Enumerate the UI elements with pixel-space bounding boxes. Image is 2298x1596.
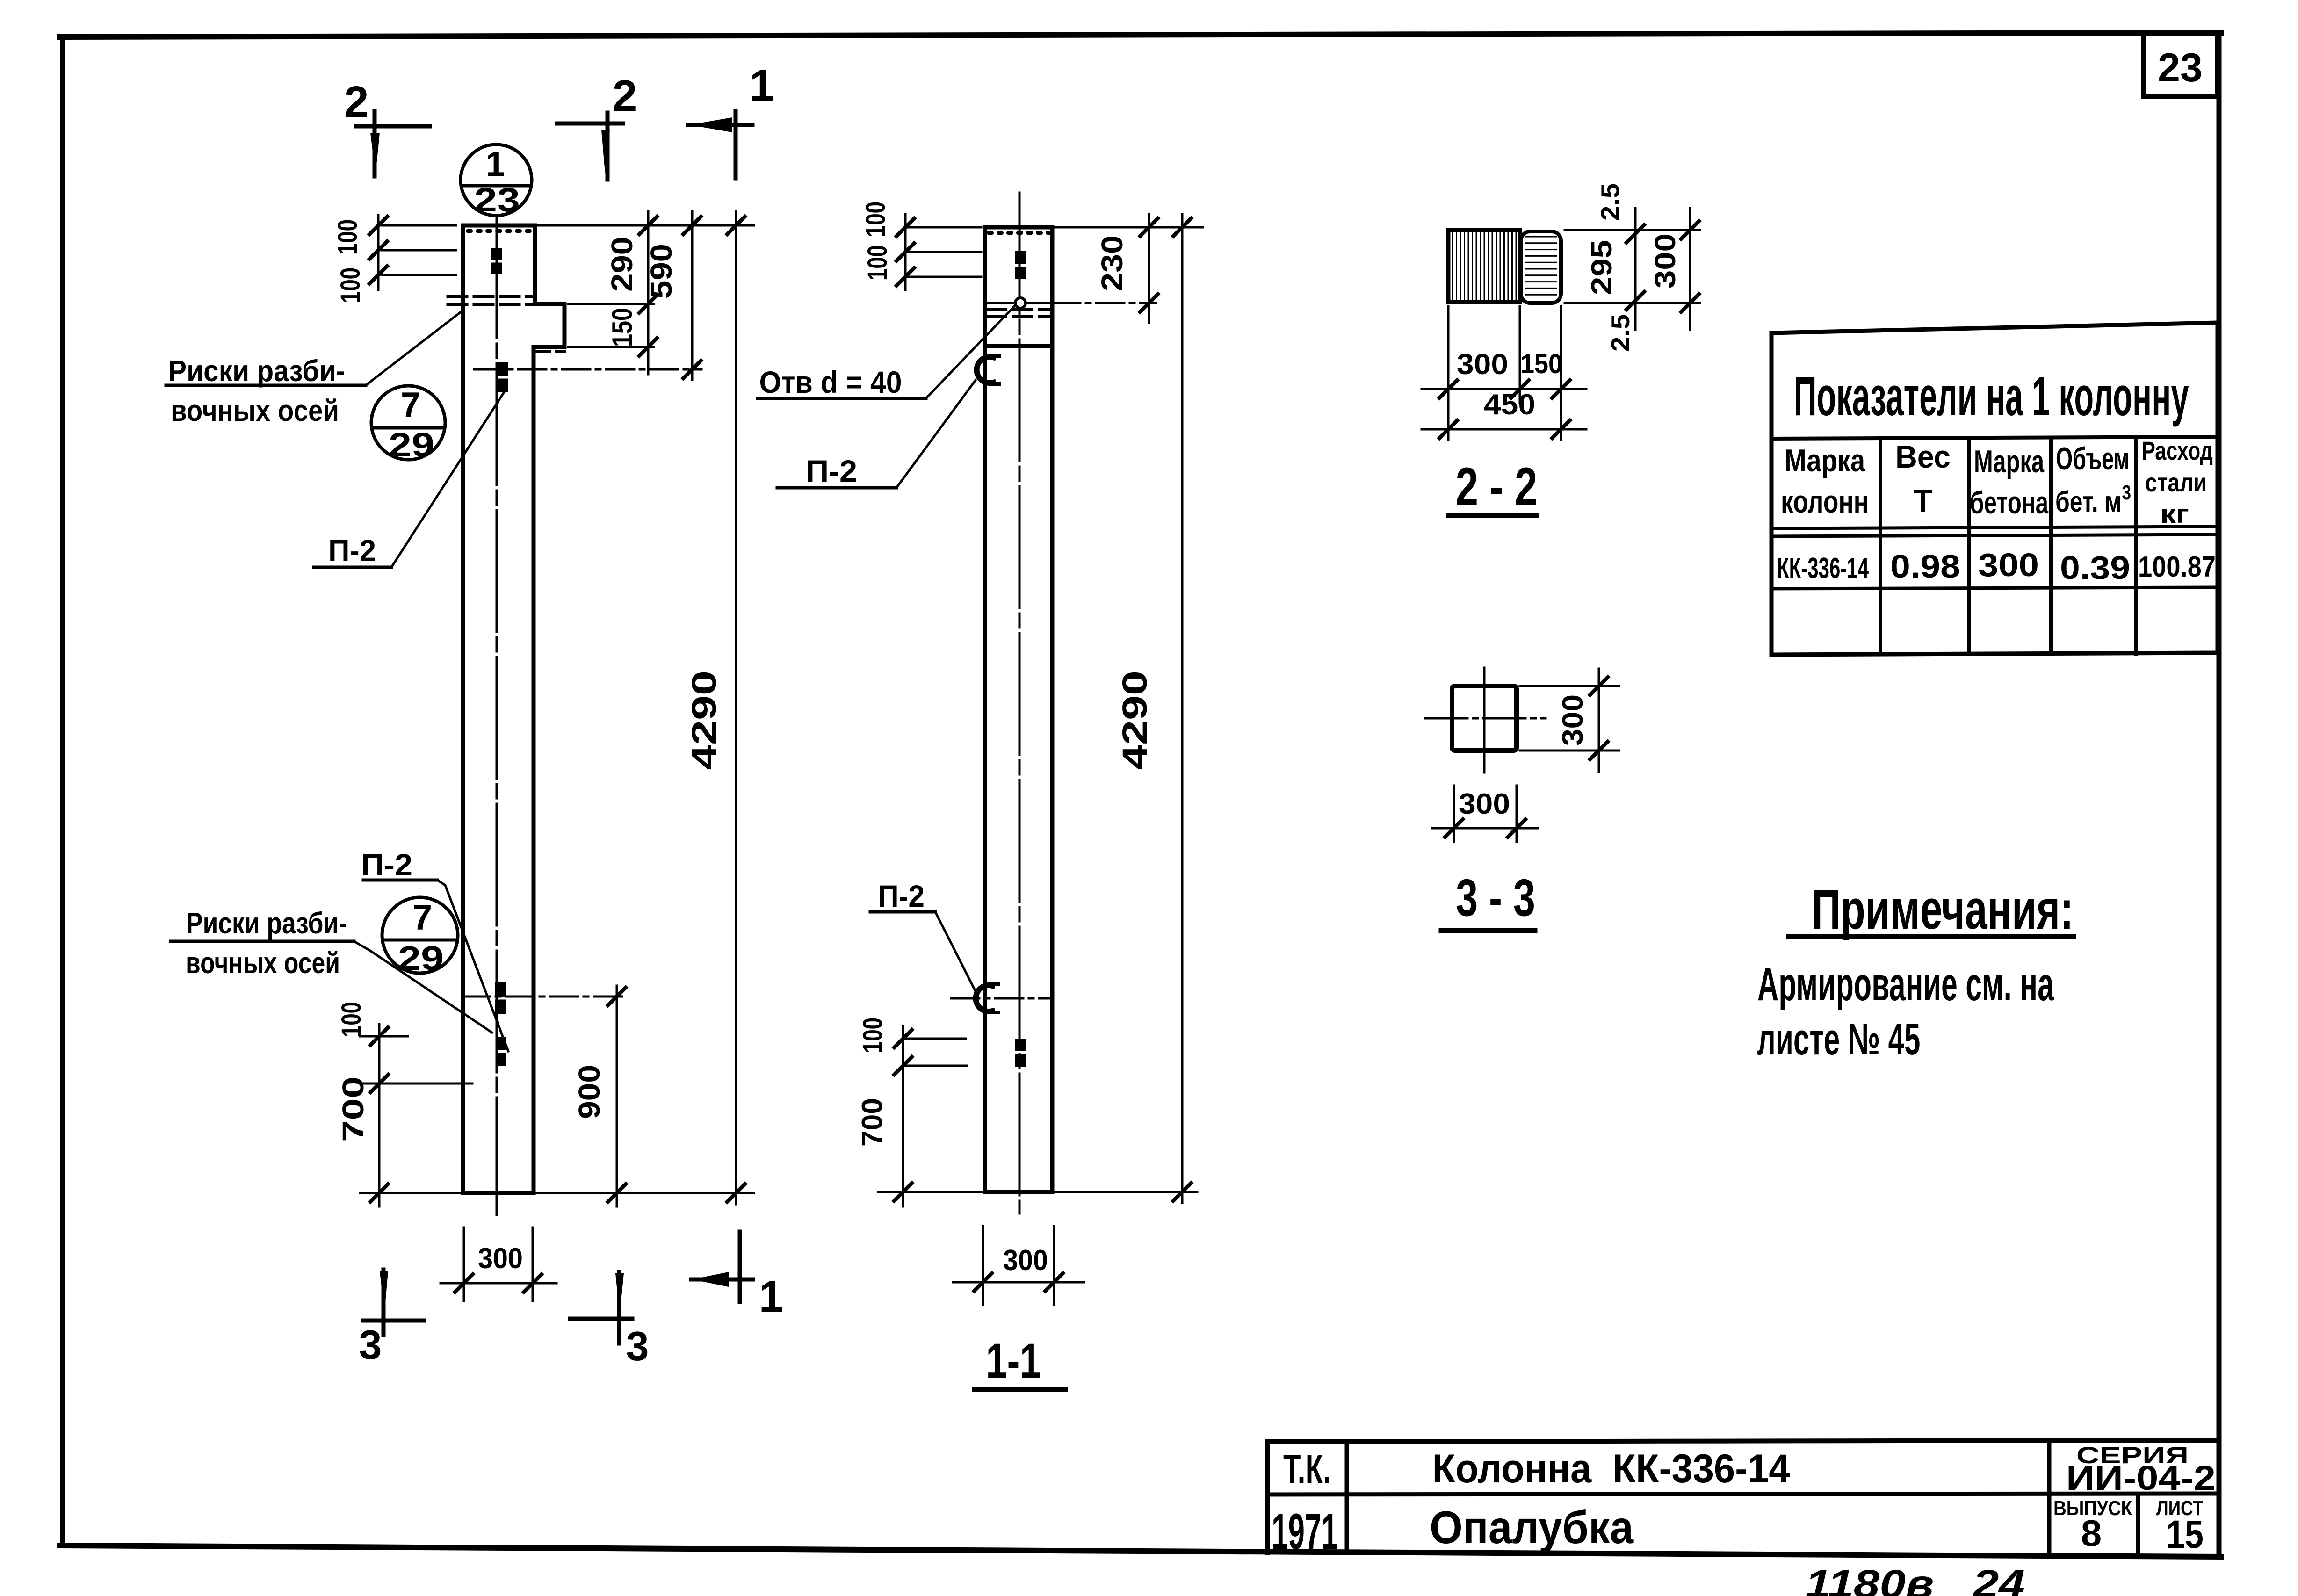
svg-text:150: 150	[607, 308, 638, 347]
svg-text:1971: 1971	[1272, 1503, 1338, 1560]
svg-text:300: 300	[1459, 788, 1510, 820]
svg-text:300: 300	[1649, 233, 1682, 289]
svg-text:100: 100	[336, 1002, 367, 1037]
svg-text:300: 300	[1003, 1244, 1048, 1277]
svg-text:КК-336-14: КК-336-14	[1777, 552, 1869, 585]
svg-text:100: 100	[332, 219, 363, 255]
svg-text:29: 29	[389, 426, 434, 464]
svg-text:Марка: Марка	[1974, 444, 2045, 479]
svg-text:300: 300	[1457, 348, 1508, 381]
svg-text:Объем: Объем	[2056, 441, 2130, 477]
svg-text:0.39: 0.39	[2060, 549, 2130, 586]
svg-text:колонн: колонн	[1781, 484, 1869, 520]
svg-text:кг: кг	[2160, 499, 2189, 528]
svg-text:900: 900	[572, 1065, 606, 1119]
svg-text:8: 8	[2081, 1512, 2102, 1554]
svg-text:1180в 24: 1180в 24	[1805, 1562, 2025, 1596]
svg-text:29: 29	[398, 940, 444, 977]
svg-text:Примечания:: Примечания:	[1812, 878, 2074, 941]
svg-text:450: 450	[1484, 389, 1535, 421]
svg-text:100: 100	[860, 202, 891, 237]
svg-text:290: 290	[605, 237, 639, 292]
svg-text:4290: 4290	[1115, 671, 1154, 770]
svg-text:Риски разби-: Риски разби-	[168, 354, 345, 388]
svg-text:1: 1	[485, 144, 505, 183]
svg-text:100: 100	[335, 267, 366, 303]
svg-text:2 - 2: 2 - 2	[1456, 457, 1538, 517]
svg-text:Показатели на 1 колонну: Показатели на 1 колонну	[1794, 366, 2189, 427]
svg-text:вочных осей: вочных осей	[171, 394, 339, 427]
svg-text:2: 2	[613, 71, 637, 121]
svg-text:П-2: П-2	[878, 879, 925, 913]
svg-text:7: 7	[401, 385, 420, 425]
svg-text:П-2: П-2	[328, 533, 376, 568]
svg-text:П-2: П-2	[361, 847, 412, 882]
svg-text:700: 700	[856, 1098, 889, 1147]
svg-text:2: 2	[344, 77, 369, 127]
svg-text:150: 150	[1520, 349, 1562, 379]
svg-text:3 - 3: 3 - 3	[1456, 868, 1535, 927]
svg-text:листе № 45: листе № 45	[1757, 1014, 1921, 1064]
svg-text:Риски разби-: Риски разби-	[186, 906, 347, 940]
svg-text:Т: Т	[1913, 483, 1933, 519]
svg-text:100: 100	[858, 1018, 888, 1053]
svg-text:Вес: Вес	[1895, 439, 1951, 475]
svg-text:0.98: 0.98	[1890, 548, 1960, 585]
svg-text:700: 700	[336, 1076, 370, 1142]
svg-text:590: 590	[644, 244, 678, 299]
svg-text:23: 23	[2158, 45, 2203, 90]
svg-text:15: 15	[2166, 1512, 2204, 1556]
svg-text:300: 300	[1978, 547, 2039, 583]
svg-text:бет. м3: бет. м3	[2055, 481, 2131, 518]
svg-text:100.87: 100.87	[2138, 551, 2216, 583]
svg-text:стали: стали	[2145, 468, 2207, 497]
svg-text:бетона: бетона	[1970, 485, 2049, 520]
svg-text:7: 7	[412, 898, 432, 938]
svg-text:3: 3	[626, 1323, 649, 1369]
svg-text:П-2: П-2	[806, 454, 857, 488]
svg-text:300: 300	[478, 1242, 523, 1275]
svg-text:Отв d = 40: Отв d = 40	[759, 365, 902, 399]
svg-text:1-1: 1-1	[986, 1334, 1041, 1388]
svg-text:4290: 4290	[685, 671, 723, 770]
svg-text:2.5: 2.5	[1606, 314, 1635, 352]
svg-text:1: 1	[750, 61, 774, 110]
svg-text:23: 23	[474, 181, 520, 219]
svg-text:Армирование см. на: Армирование см. на	[1757, 958, 2054, 1011]
svg-text:Расход: Расход	[2142, 436, 2213, 465]
svg-text:295: 295	[1586, 240, 1618, 295]
svg-text:Колонна КК-336-14: Колонна КК-336-14	[1432, 1446, 1790, 1491]
svg-text:230: 230	[1095, 235, 1129, 291]
svg-text:Марка: Марка	[1785, 443, 1865, 478]
svg-text:100: 100	[862, 245, 893, 281]
svg-text:вочных осей: вочных осей	[186, 946, 340, 980]
svg-text:Т.К.: Т.К.	[1283, 1446, 1331, 1492]
svg-text:3: 3	[359, 1322, 382, 1368]
svg-text:1: 1	[759, 1272, 784, 1322]
svg-text:2.5: 2.5	[1596, 183, 1625, 221]
svg-text:ИИ-04-2: ИИ-04-2	[2066, 1459, 2216, 1497]
svg-text:Опалубка: Опалубка	[1430, 1502, 1634, 1553]
svg-text:300: 300	[1557, 694, 1589, 746]
